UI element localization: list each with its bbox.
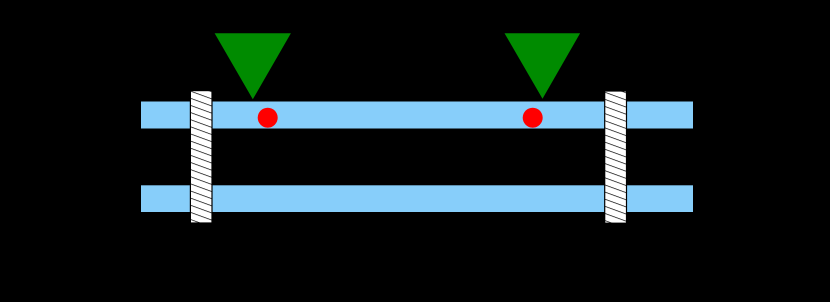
support W1: left hatched post xyxy=(190,91,212,223)
wire: top conductor bar xyxy=(141,102,693,129)
probe P1: left green triangle marker xyxy=(215,33,291,99)
support W2: right hatched post xyxy=(605,91,627,223)
node A: left red contact dot xyxy=(258,108,278,128)
probe P2: right green triangle marker xyxy=(505,33,581,99)
wire: bottom conductor bar xyxy=(141,185,693,212)
node B: right red contact dot xyxy=(523,108,543,128)
